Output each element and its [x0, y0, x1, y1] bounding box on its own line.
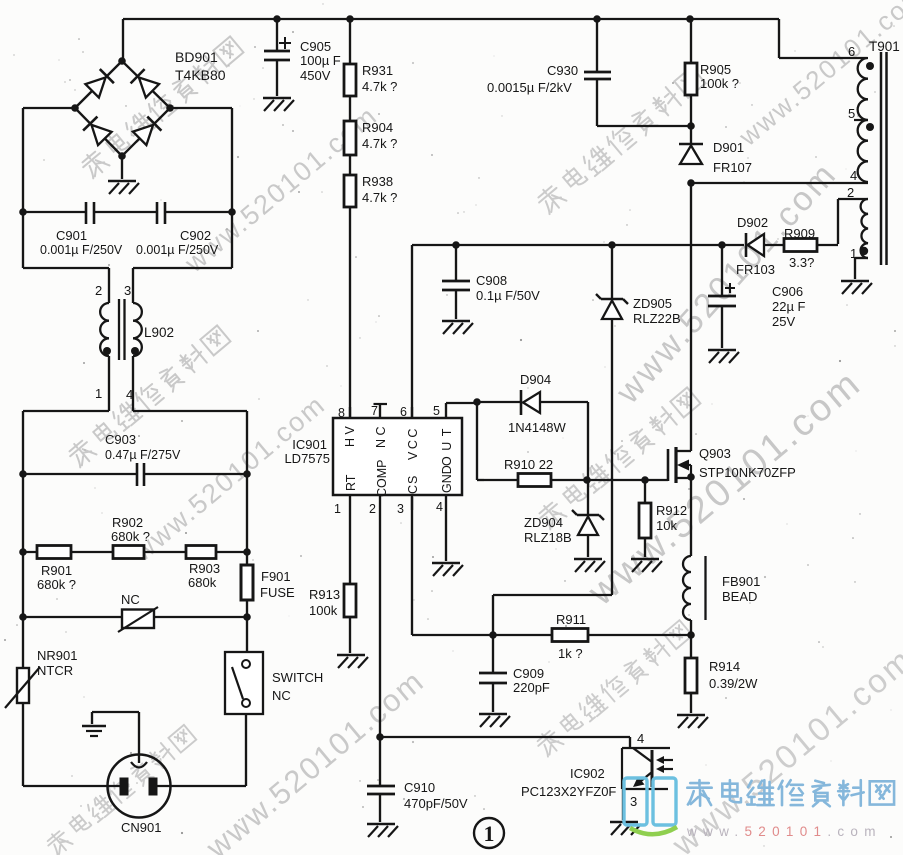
svg-text:6: 6 — [848, 44, 855, 59]
capacitor C909 — [479, 635, 550, 712]
svg-text:0.47µ F/275V: 0.47µ F/275V — [105, 448, 181, 462]
svg-text:GND: GND — [440, 465, 454, 493]
node: C903 left — [19, 470, 27, 478]
svg-text:1N4148W: 1N4148W — [508, 420, 567, 435]
svg-text:220pF: 220pF — [513, 680, 550, 695]
ground (C910) — [367, 824, 398, 837]
thermistor NR901 — [5, 617, 77, 786]
svg-text:RLZ18B: RLZ18B — [524, 530, 572, 545]
capacitor C901 — [23, 202, 127, 257]
svg-text:NC: NC — [272, 688, 291, 703]
transformer T901 primary — [848, 39, 900, 183]
svg-text:FR107: FR107 — [713, 160, 752, 175]
resistor R910 — [484, 457, 587, 487]
svg-text:STP10NK70ZFP: STP10NK70ZFP — [699, 465, 796, 480]
node: snubber junction — [687, 122, 695, 130]
wire: IC ground pin — [445, 510, 447, 561]
wire: VCC rail — [412, 245, 744, 418]
svg-text:R938: R938 — [362, 174, 393, 189]
node: COMP node — [376, 733, 384, 741]
resistor R902 — [111, 515, 150, 559]
wire: main HV top rail — [123, 19, 867, 58]
transformer T901 core — [881, 52, 887, 265]
svg-text:FUSE: FUSE — [260, 585, 295, 600]
svg-text:100k ?: 100k ? — [700, 76, 739, 91]
svg-text:1k ?: 1k ? — [558, 646, 583, 661]
node: bridge + output — [118, 57, 126, 65]
svg-text:450V: 450V — [300, 68, 331, 83]
wire: bleeder resistor row — [23, 551, 247, 553]
svg-text:C902: C902 — [180, 228, 211, 243]
ground (T901 pin 1) — [841, 281, 872, 294]
choke L902 — [95, 283, 174, 402]
wire: filtered line left — [23, 411, 109, 474]
svg-text:CN901: CN901 — [121, 820, 161, 835]
svg-text:1: 1 — [484, 821, 495, 846]
optocoupler IC902 — [521, 731, 673, 809]
svg-text:FB901: FB901 — [722, 574, 760, 589]
wire: drain to primary pin 4 — [691, 182, 868, 184]
resistor R912 — [639, 480, 687, 557]
wire: HV to IC901 pin 8 — [349, 207, 351, 418]
svg-text:OUT: OUT — [440, 423, 454, 466]
wire: right rail to resistor row — [246, 474, 248, 552]
ground (C906) — [708, 350, 739, 363]
wire: COMP line — [379, 510, 381, 737]
svg-text:www.520101.com: www.520101.com — [686, 824, 882, 839]
svg-text:100k: 100k — [309, 603, 338, 618]
svg-text:T901: T901 — [869, 39, 900, 54]
wire — [690, 95, 692, 126]
diode D902 — [736, 215, 784, 277]
diode D904 — [477, 372, 588, 435]
node: NC row right — [243, 613, 251, 621]
transformer T901 auxiliary winding — [838, 185, 868, 279]
node: source node — [687, 473, 695, 481]
bridge rectifier BD901 — [75, 49, 226, 156]
svg-text:IC901: IC901 — [292, 437, 327, 452]
wire: L902 pin1 down — [108, 356, 110, 411]
wire — [349, 96, 351, 121]
svg-text:100µ F: 100µ F — [300, 53, 341, 68]
svg-text:2: 2 — [95, 283, 102, 298]
svg-text:5: 5 — [433, 404, 440, 418]
svg-text:FR103: FR103 — [736, 262, 775, 277]
svg-text:R909: R909 — [784, 226, 815, 241]
svg-text:C905: C905 — [300, 39, 331, 54]
wire: rail drop to bridge + terminal — [122, 19, 124, 61]
capacitor C906 — [708, 245, 806, 348]
thermal element NC — [118, 592, 158, 632]
page marker 1 — [474, 818, 504, 848]
svg-text:1: 1 — [850, 246, 857, 261]
node: VCC at ZD905 — [608, 241, 616, 249]
wire: COMP to opto — [380, 736, 630, 738]
capacitor C905 — [264, 19, 341, 96]
ferrite bead FB901 — [683, 556, 760, 635]
svg-text:IC902: IC902 — [570, 766, 605, 781]
wire: R931 feed — [349, 19, 351, 64]
svg-text:0.39/2W: 0.39/2W — [709, 676, 758, 691]
svg-text:10k: 10k — [656, 518, 677, 533]
node: VCC at C908 — [452, 241, 460, 249]
svg-text:8: 8 — [338, 406, 345, 420]
wire: OUT to R910 — [477, 402, 484, 480]
wire — [349, 155, 351, 175]
wire: CS line — [412, 497, 552, 635]
svg-text:4: 4 — [436, 500, 443, 514]
wire: ZD905 to CS net — [493, 319, 612, 635]
svg-text:3: 3 — [630, 794, 637, 809]
wire: NTC to plug — [23, 785, 120, 787]
svg-text:C909: C909 — [513, 666, 544, 681]
wire: switch to plug — [156, 714, 246, 786]
resistor R901 — [37, 546, 76, 593]
svg-text:4: 4 — [637, 731, 644, 746]
svg-text:3: 3 — [124, 283, 131, 298]
svg-text:R913: R913 — [309, 587, 340, 602]
svg-text:680k: 680k — [188, 575, 217, 590]
wire: bridge - to ground — [121, 156, 123, 179]
svg-text:RT: RT — [344, 474, 358, 491]
ground (IC902) — [610, 822, 641, 835]
ground (ZD904) — [574, 559, 605, 572]
svg-text:BEAD: BEAD — [722, 589, 757, 604]
node: bridge - terminal — [118, 152, 126, 160]
svg-text:C906: C906 — [772, 284, 803, 299]
resistor R938 — [344, 174, 397, 207]
svg-text:C930: C930 — [547, 63, 578, 78]
svg-text:C901: C901 — [56, 228, 87, 243]
svg-text:PC123X2YFZ0F: PC123X2YFZ0F — [521, 784, 616, 799]
svg-text:3: 3 — [397, 502, 404, 516]
node: drain node — [687, 179, 695, 187]
resistor R909 — [784, 226, 838, 270]
svg-text:NC: NC — [374, 423, 388, 448]
svg-text:25V: 25V — [772, 314, 795, 329]
zener ZD904 — [524, 480, 604, 557]
svg-text:R903: R903 — [189, 561, 220, 576]
ground (bridge) — [108, 181, 139, 194]
wire: AC right rail — [133, 108, 232, 303]
node: C903 right — [243, 470, 251, 478]
svg-text:D902: D902 — [737, 215, 768, 230]
svg-text:22µ F: 22µ F — [772, 299, 806, 314]
svg-text:C903: C903 — [105, 432, 136, 447]
node: bridge AC left — [71, 104, 79, 112]
svg-text:R931: R931 — [362, 63, 393, 78]
svg-text:1: 1 — [334, 502, 341, 516]
ground (C909) — [479, 714, 510, 727]
ground (R914) — [677, 715, 708, 728]
svg-text:COMP: COMP — [375, 460, 389, 498]
node: sense node — [687, 631, 695, 639]
svg-text:4.7k ?: 4.7k ? — [362, 190, 397, 205]
zener ZD905 — [596, 245, 681, 326]
op-amp U1 controller IC901 LD7575 — [284, 403, 477, 516]
ground (C908) — [442, 321, 473, 334]
svg-text:6: 6 — [400, 405, 407, 419]
svg-text:F901: F901 — [261, 569, 291, 584]
svg-text:0.0015µ F/2kV: 0.0015µ F/2kV — [487, 80, 572, 95]
svg-text:470pF/50V: 470pF/50V — [404, 796, 468, 811]
svg-text:LD7575: LD7575 — [284, 451, 330, 466]
svg-text:5: 5 — [848, 106, 855, 121]
svg-text:4.7k ?: 4.7k ? — [362, 79, 397, 94]
node: X-cap row right — [228, 208, 236, 216]
wire: gate wire — [587, 479, 668, 481]
switch SWITCH NC — [225, 617, 323, 714]
resistor R905 — [685, 62, 739, 95]
ground (C905) — [263, 98, 294, 111]
svg-text:NR901: NR901 — [37, 648, 77, 663]
node: X-cap row left — [19, 208, 27, 216]
node: rail at R905 — [686, 15, 694, 23]
svg-text:R905: R905 — [700, 62, 731, 77]
svg-text:VCC: VCC — [406, 426, 420, 460]
node: rail at R931 — [346, 15, 354, 23]
wire: D904 right drop — [587, 402, 589, 480]
svg-text:T4KB80: T4KB80 — [175, 67, 226, 83]
svg-text:0.1µ F/50V: 0.1µ F/50V — [476, 288, 540, 303]
svg-text:R904: R904 — [362, 120, 393, 135]
svg-text:0.001µ F/250V: 0.001µ F/250V — [136, 243, 219, 257]
wire: filtered line right — [133, 411, 247, 474]
svg-text:680k ?: 680k ? — [111, 529, 150, 544]
node: NC row left — [19, 613, 27, 621]
ground (IC901 GND) — [432, 563, 463, 576]
svg-text:7: 7 — [371, 404, 378, 418]
node: OUT node — [473, 398, 481, 406]
wire: L902 pin4 down — [132, 356, 134, 411]
transistor Q903 — [668, 446, 796, 483]
wire: NC row — [23, 552, 247, 617]
wire: AC left rail — [23, 108, 109, 303]
node: C909 node — [489, 631, 497, 639]
diode D901 — [679, 140, 752, 175]
svg-text:4: 4 — [850, 168, 857, 183]
svg-text:RLZ22B: RLZ22B — [633, 311, 681, 326]
resistor R913 — [309, 510, 356, 653]
wire — [690, 19, 692, 63]
svg-text:2: 2 — [369, 502, 376, 516]
wire: opto emitter to ground — [622, 789, 624, 820]
node: R912 top — [641, 476, 649, 484]
svg-text:SWITCH: SWITCH — [272, 670, 323, 685]
capacitor C902 — [127, 202, 232, 257]
svg-text:D901: D901 — [713, 140, 744, 155]
wire: C930 to snubber node — [597, 125, 691, 127]
svg-text:ZD904: ZD904 — [524, 515, 563, 530]
node: resistor row right — [243, 548, 251, 556]
wire: source to bead — [690, 478, 692, 556]
svg-text:HV: HV — [343, 423, 357, 447]
svg-text:R901: R901 — [41, 563, 72, 578]
svg-text:L902: L902 — [144, 325, 174, 340]
svg-text:C908: C908 — [476, 273, 507, 288]
ground (R913) — [337, 655, 368, 668]
capacitor C930 — [487, 19, 611, 126]
node: resistor row left — [19, 548, 27, 556]
node: rail at C930 — [593, 15, 601, 23]
svg-text:R911: R911 — [556, 612, 586, 627]
svg-text:D904: D904 — [520, 372, 551, 387]
svg-text:NC: NC — [121, 592, 140, 607]
svg-text:Q903: Q903 — [699, 446, 731, 461]
resistor R903 — [186, 546, 220, 591]
wire — [690, 126, 692, 144]
node: bridge AC right — [166, 104, 174, 112]
svg-text:680k ?: 680k ? — [37, 577, 76, 592]
svg-text:3.3?: 3.3? — [789, 255, 814, 270]
svg-text:NTCR: NTCR — [37, 663, 73, 678]
resistor R904 — [344, 120, 397, 155]
ground (mains earth) — [82, 726, 106, 736]
node: gate network — [583, 476, 591, 484]
ground (R912) — [631, 559, 662, 572]
fuse F901 — [241, 552, 295, 600]
capacitor C903 — [23, 432, 247, 486]
svg-text:2: 2 — [847, 185, 854, 200]
svg-text:R912: R912 — [656, 503, 687, 518]
svg-text:R914: R914 — [709, 659, 740, 674]
node: rail at C905 — [273, 15, 281, 23]
svg-text:1: 1 — [95, 386, 102, 401]
node: VCC at C906 — [718, 241, 726, 249]
svg-text:4.7k ?: 4.7k ? — [362, 136, 397, 151]
wire: left rail to resistor row — [22, 474, 24, 552]
svg-text:R902: R902 — [112, 515, 143, 530]
svg-text:C910: C910 — [404, 780, 435, 795]
capacitor C910 — [367, 737, 468, 822]
svg-text:R910 22: R910 22 — [504, 457, 553, 472]
svg-text:ZD905: ZD905 — [633, 296, 672, 311]
svg-text:0.001µ F/250V: 0.001µ F/250V — [40, 243, 123, 257]
svg-text:BD901: BD901 — [175, 49, 218, 65]
wire: drain line — [690, 183, 692, 451]
capacitor C908 — [442, 245, 540, 319]
connector CN901 — [108, 755, 171, 836]
resistor R911 — [552, 612, 691, 661]
resistor R914 — [685, 635, 758, 713]
svg-text:CS: CS — [406, 475, 420, 494]
wire: plug earth pin — [92, 712, 139, 763]
resistor R931 — [344, 63, 397, 96]
